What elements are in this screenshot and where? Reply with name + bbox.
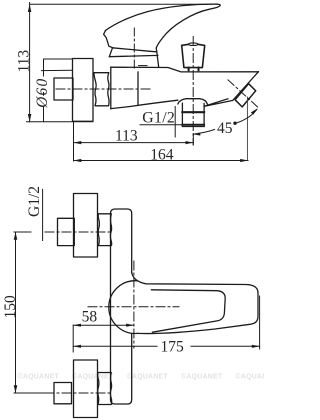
G1/2 leader line [42, 189, 44, 240]
lower eccentric connector [54, 383, 72, 404]
handle inner face [152, 290, 226, 332]
top extension line [30, 3, 213, 5]
dim 164 [74, 97, 249, 161]
eccentric connector (side) [54, 78, 73, 100]
watermark row [18, 373, 278, 381]
handle outline (plan) [132, 273, 258, 334]
lower nut [98, 373, 112, 405]
svg-text:©AQUANET: ©AQUANET [127, 373, 169, 381]
dim 113 arrows [28, 4, 32, 122]
inlet axis dash-dot (side) [56, 88, 150, 90]
svg-text:58: 58 [82, 309, 98, 326]
spout axis dash-dot 45deg [228, 80, 259, 109]
dim 113 vertical line [27, 3, 214, 122]
svg-text:©AQUANET: ©AQUANET [18, 373, 60, 381]
escutcheon (side) [73, 59, 94, 122]
body bar [111, 209, 132, 404]
svg-text:113: 113 [115, 128, 138, 145]
aerator (rotated) [235, 84, 256, 107]
upper inlet axis dash-dot [45, 231, 112, 233]
dim 150 [14, 232, 54, 393]
dim D60 bracket [42, 59, 73, 122]
lower inlet axis dash-dot [45, 392, 112, 394]
outlet axis dash-dot vertical [192, 37, 194, 146]
handle cap (side) [109, 48, 158, 68]
shower outlet hump [178, 99, 208, 105]
dim 45deg arc leader [194, 110, 257, 135]
upper eccentric connector [58, 218, 75, 245]
nut (side) [94, 73, 109, 106]
body bottom edge [111, 100, 178, 108]
svg-text:113: 113 [15, 50, 32, 73]
knob top ellipse [189, 43, 198, 46]
spout end slant face [204, 72, 258, 107]
dim 113 horizontal [74, 121, 194, 161]
svg-text:©AQUANET: ©AQUANET [236, 373, 265, 381]
svg-text:©AQUANET: ©AQUANET [72, 373, 114, 381]
lower escutcheon [74, 360, 98, 418]
dim 175 [73, 296, 259, 349]
body top edge [111, 67, 259, 72]
shower outlet body [181, 103, 183, 126]
dim 58 [73, 324, 134, 326]
diverter knob [182, 44, 205, 67]
svg-text:45: 45 [217, 120, 233, 137]
svg-text:175: 175 [161, 338, 185, 355]
upper escutcheon [74, 194, 98, 258]
svg-text:G1/2: G1/2 [142, 109, 175, 126]
knob feet [188, 68, 190, 71]
bottom extension / bracket line [27, 121, 94, 123]
handle crosshair dash-dot [88, 306, 179, 308]
handle pivot axis dash-dot [133, 28, 135, 68]
svg-text:Ø60: Ø60 [34, 78, 51, 109]
svg-text:G1/2: G1/2 [26, 186, 43, 217]
handle dome circle (left arc) [109, 281, 138, 334]
lever handle (side) [105, 4, 220, 52]
svg-text:150: 150 [2, 295, 19, 319]
svg-text:©AQUANET: ©AQUANET [181, 373, 223, 381]
svg-text:164: 164 [150, 146, 174, 163]
body block (side) [110, 67, 112, 108]
handle rear face [104, 31, 113, 48]
upper nut [98, 214, 111, 246]
